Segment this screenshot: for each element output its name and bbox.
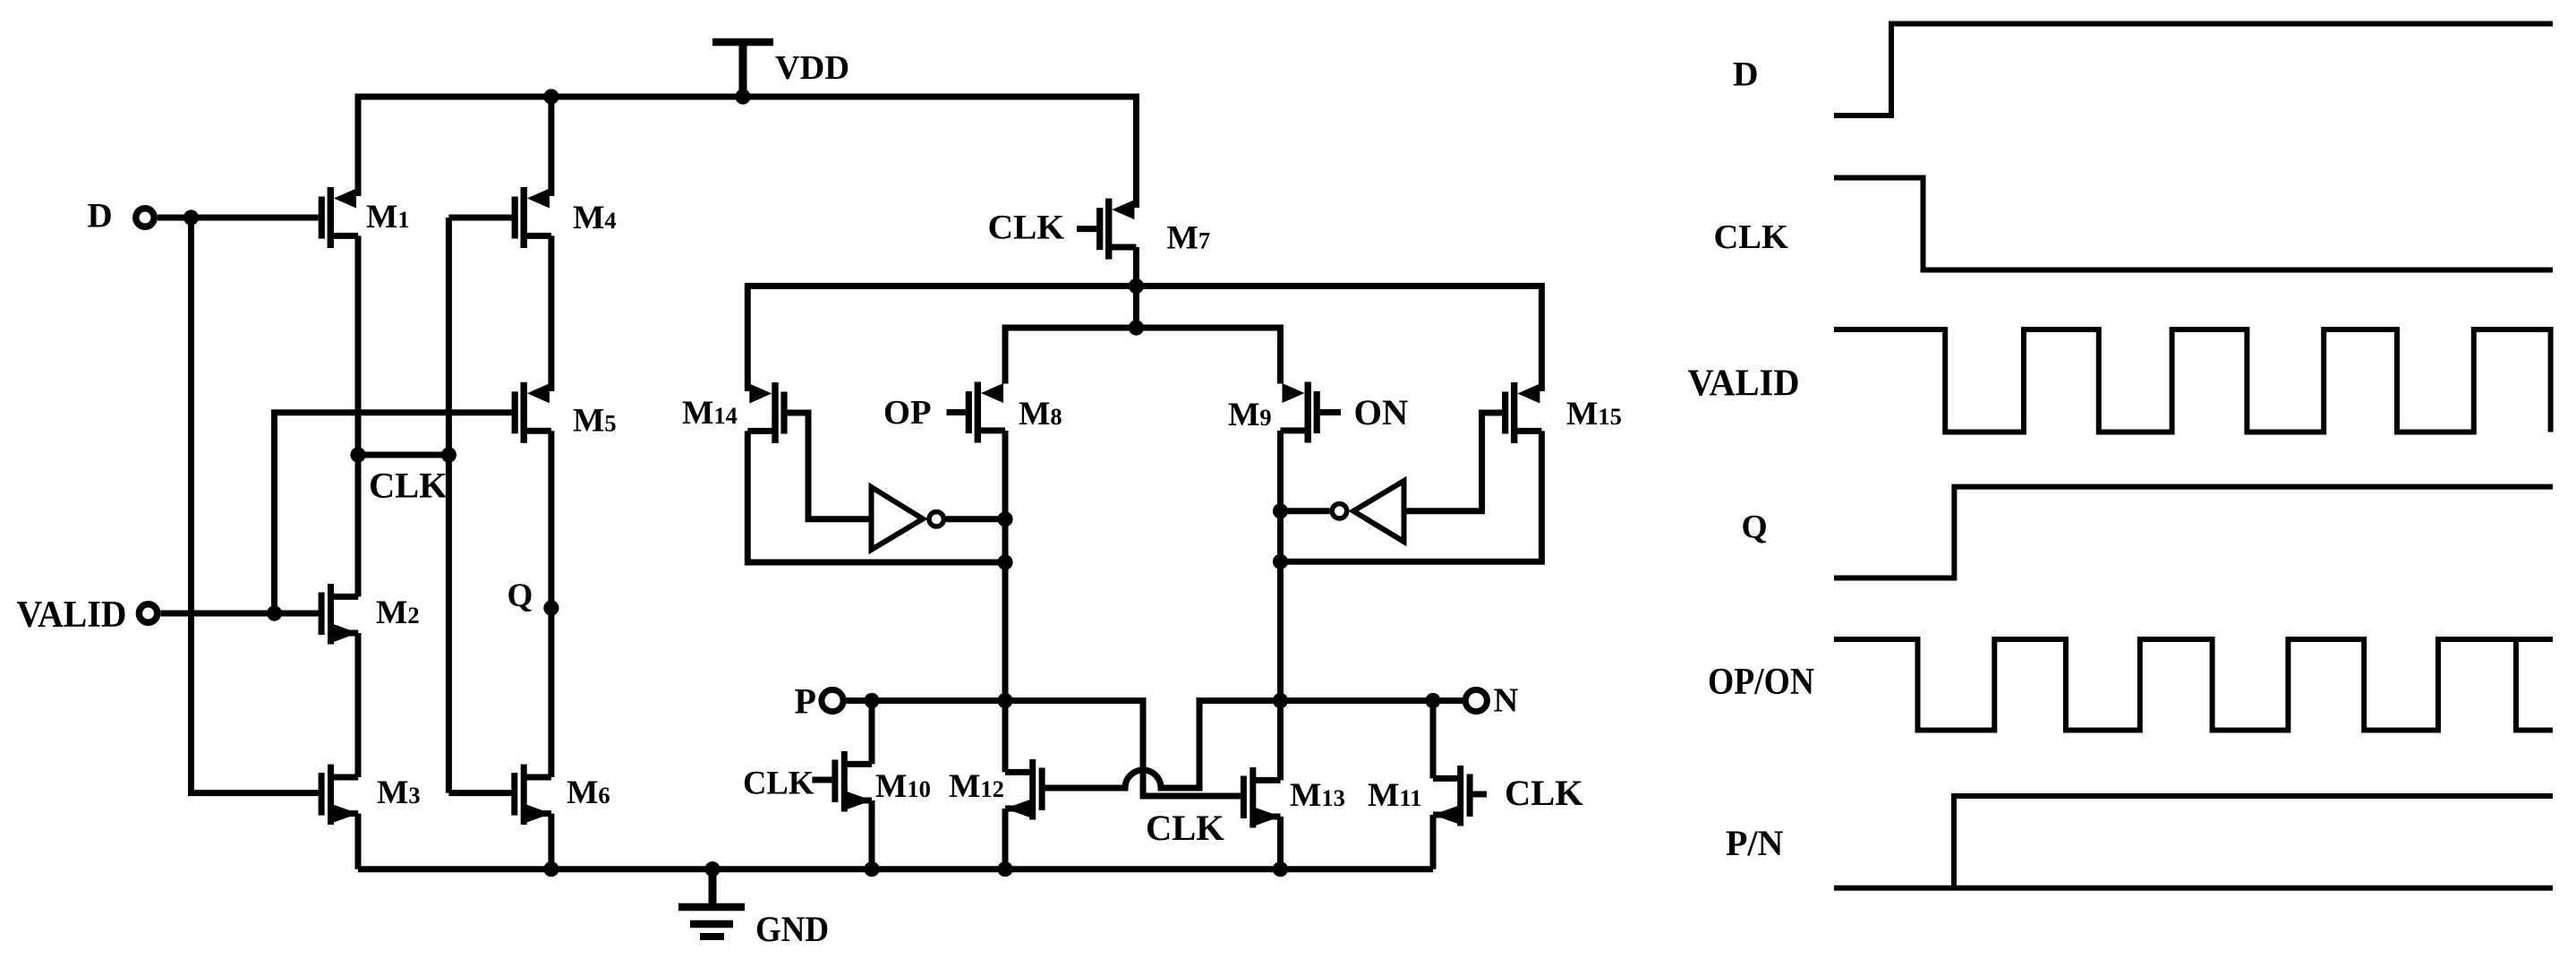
svg-text:N: N xyxy=(1494,682,1519,720)
svg-text:OP/ON: OP/ON xyxy=(1708,662,1814,703)
wire CLK vertical M4 gate to M6 gate xyxy=(446,218,452,793)
timing waveform P/N rise and high xyxy=(1954,796,2553,888)
svg-text:CLK: CLK xyxy=(1714,218,1788,256)
wire M9 gate stub ON xyxy=(1320,409,1341,415)
wire inverter U2 output xyxy=(1281,508,1330,514)
svg-text:CLK: CLK xyxy=(1505,773,1583,813)
wire tail rail upper xyxy=(747,286,1541,391)
wire P net to M13 gate xyxy=(846,701,1241,797)
wire M14 gate to inverter input xyxy=(788,413,871,519)
node CLK junction dot right xyxy=(441,447,456,462)
wire M12 gate over-hop to N net xyxy=(1045,701,1463,789)
node VDD junction dot M4 drain xyxy=(543,89,559,104)
svg-text:Q: Q xyxy=(508,578,533,614)
terminal D xyxy=(136,209,154,227)
svg-text:Q: Q xyxy=(1742,509,1768,546)
timing waveform P/N low xyxy=(1834,886,2553,891)
transistor M9 xyxy=(1281,382,1320,443)
svg-text:GND: GND xyxy=(755,909,829,949)
transistor M4 xyxy=(512,187,551,248)
node ground rail dot M12 xyxy=(997,861,1012,877)
node U1 output dot xyxy=(997,511,1012,526)
node D junction dot xyxy=(183,210,199,225)
node ground rail dot M10 xyxy=(864,861,879,877)
wire VALID to M2 gate xyxy=(161,611,319,617)
wire M5 source to M6 drain (Q node) xyxy=(548,431,554,777)
wire M9 source vertical xyxy=(1277,431,1284,781)
svg-text:D: D xyxy=(1733,55,1759,94)
node ground rail dot GND stem xyxy=(704,861,720,877)
node P net dot M10 drain xyxy=(864,693,879,708)
wire M10 drain vertical xyxy=(869,701,875,765)
wire M14 source down and across xyxy=(747,431,1005,562)
wire M4 source to M5 drain xyxy=(548,235,554,391)
node VALID junction dot xyxy=(267,605,282,620)
wire M3 source to ground rail xyxy=(355,814,362,869)
transistor M7 xyxy=(1096,199,1136,260)
transistor M14 xyxy=(747,382,787,443)
svg-text:P/N: P/N xyxy=(1726,823,1784,863)
transistor M3 xyxy=(319,765,359,826)
inverter U2 bubble xyxy=(1332,504,1346,518)
timing waveform VALID xyxy=(1834,329,2551,432)
wire inverter U1 output xyxy=(946,516,1005,522)
node P net dot M12 drain xyxy=(997,693,1012,708)
svg-text:CLK: CLK xyxy=(369,466,448,506)
node tail rail lower dot xyxy=(1129,320,1144,335)
svg-text:VDD: VDD xyxy=(775,49,849,87)
wire ground rail xyxy=(358,866,1433,872)
wire tail rail lower xyxy=(1005,328,1281,384)
svg-text:VALID: VALID xyxy=(17,594,127,636)
wire M2 source to M3 drain xyxy=(355,633,362,777)
transistor M8 xyxy=(966,382,1005,443)
node N net dot M9/M13 xyxy=(1273,693,1288,708)
node M14 source rail dot xyxy=(997,554,1012,569)
wire M15 gate to inverter input xyxy=(1404,413,1502,511)
timing waveform Q xyxy=(1834,487,2553,578)
svg-text:CLK: CLK xyxy=(1146,808,1224,848)
wire M4 gate lead xyxy=(448,215,511,221)
terminal N xyxy=(1465,689,1487,711)
svg-text:VALID: VALID xyxy=(1688,364,1800,405)
wire M10 source vertical xyxy=(869,800,875,869)
transistor M15 xyxy=(1502,382,1541,443)
transistor M6 xyxy=(511,765,551,826)
wire M13 source vertical xyxy=(1277,817,1284,869)
terminal VALID xyxy=(139,604,157,622)
timing waveform CLK xyxy=(1834,178,2553,270)
node U2 output dot xyxy=(1273,503,1288,518)
node N net dot M11 drain xyxy=(1425,693,1440,708)
transistor M11 xyxy=(1433,766,1473,826)
transistor M12 xyxy=(1005,759,1045,820)
transistor M1 xyxy=(319,187,358,248)
node VDD junction dot stem xyxy=(735,89,750,104)
svg-text:OP: OP xyxy=(883,394,931,432)
wire M15 source down and across xyxy=(1281,431,1542,561)
VDD symbol xyxy=(739,44,747,97)
inverter U2 triangle xyxy=(1353,481,1404,542)
wire M11 gate stub xyxy=(1472,792,1487,798)
svg-text:D: D xyxy=(88,197,113,235)
node tail rail upper dot xyxy=(1129,278,1144,294)
wire M8 source vertical xyxy=(1002,431,1009,773)
svg-text:P: P xyxy=(795,681,816,722)
svg-text:CLK: CLK xyxy=(988,208,1065,247)
wire M7 drain to tail rails xyxy=(1133,247,1139,328)
wire CLK tap horizontal xyxy=(358,452,448,458)
transistor M10 xyxy=(832,751,872,812)
inverter U1 triangle xyxy=(872,487,924,550)
wire VALID vertical to M5 gate rail xyxy=(275,413,512,613)
svg-text:CLK: CLK xyxy=(743,765,815,801)
node ground rail dot M13 xyxy=(1273,861,1288,877)
timing waveform OP/ON xyxy=(1834,639,2553,731)
wire M11 source vertical xyxy=(1430,815,1437,869)
wire D to M1 gate xyxy=(158,215,319,221)
transistor M13 xyxy=(1241,767,1281,828)
transistor M2 xyxy=(319,584,359,645)
timing waveform ON final fall xyxy=(2516,639,2553,731)
wire M11 drain vertical xyxy=(1430,701,1437,779)
node Q junction dot xyxy=(543,600,559,615)
inverter U1 bubble xyxy=(929,512,943,526)
wire D vertical to M3 gate xyxy=(192,218,319,793)
wire M10 gate stub xyxy=(812,777,832,783)
wire M4 drain xyxy=(548,97,554,196)
svg-text:ON: ON xyxy=(1354,392,1409,432)
timing waveform D xyxy=(1834,24,2553,116)
node CLK junction dot left xyxy=(350,447,365,462)
ground symbol xyxy=(678,869,745,937)
wire M7 gate stub xyxy=(1077,226,1096,232)
wire M6 gate lead xyxy=(448,790,512,796)
wire M6 source to ground rail xyxy=(548,814,554,869)
terminal P xyxy=(822,689,843,711)
wire M8 gate stub OP xyxy=(947,409,966,415)
wire M1 source to M2 drain (CLK node) xyxy=(355,235,362,596)
transistor M5 xyxy=(512,382,551,443)
wire M12 source vertical xyxy=(1002,809,1009,869)
wire VDD top rail xyxy=(358,97,1136,208)
node ground rail dot M6 xyxy=(543,861,559,877)
node M15 source rail dot xyxy=(1273,554,1288,569)
